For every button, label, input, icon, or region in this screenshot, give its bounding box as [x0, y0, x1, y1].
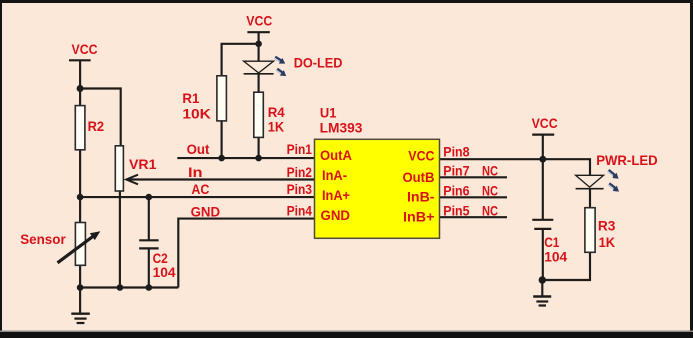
- diode PWR-LED triangle: [576, 175, 604, 187]
- sensor arrow: [58, 235, 96, 263]
- svg-text:Pin2: Pin2: [287, 164, 313, 180]
- svg-text:104: 104: [153, 264, 176, 280]
- wire VCC mid vertical to LED: [258, 32, 260, 61]
- svg-text:AC: AC: [191, 181, 209, 197]
- svg-text:DO-LED: DO-LED: [294, 55, 343, 71]
- wire R1 bottom to Out row: [221, 121, 223, 158]
- capacitor C2 top lead: [148, 197, 150, 240]
- wire node to R1 top: [222, 44, 259, 76]
- diode DO-LED cathode bar: [244, 73, 274, 75]
- wire VCC right vertical: [542, 135, 544, 160]
- svg-text:Pin7: Pin7: [443, 163, 469, 179]
- node dot Pin8/VCC/C1: [539, 156, 546, 163]
- node dot VCC-left/R2/VR1: [77, 85, 84, 92]
- wire Pin6 stub: [439, 196, 508, 198]
- wire LED to R4: [258, 74, 260, 92]
- svg-text:R2: R2: [88, 118, 105, 134]
- node dot AC/R2/sensor: [77, 194, 84, 201]
- svg-text:InA+: InA+: [322, 187, 350, 203]
- svg-text:Pin1: Pin1: [287, 141, 313, 157]
- svg-text:C1: C1: [544, 234, 559, 250]
- wire In row (wiper to Pin2): [128, 178, 315, 180]
- svg-text:Pin4: Pin4: [287, 203, 313, 219]
- capacitor C2 bottom lead: [148, 248, 150, 287]
- wire GND corner riser: [178, 219, 314, 288]
- svg-text:Pin6: Pin6: [443, 183, 469, 199]
- potentiometer VR1 body: [115, 146, 123, 191]
- wire Out row: [177, 157, 314, 159]
- border frame: [0, 0, 693, 3]
- svg-text:VCC: VCC: [532, 115, 558, 131]
- sensor body: [75, 223, 85, 266]
- wire R4 bottom to Out row: [258, 137, 260, 158]
- power symbol VCC right bar: [532, 134, 554, 136]
- resistor R2 body: [75, 106, 85, 150]
- node dot ground row / C2: [146, 284, 153, 291]
- wire Pin5 stub: [439, 216, 508, 218]
- node dot Out/R1: [218, 155, 225, 162]
- wire Pin7 stub: [439, 176, 508, 178]
- svg-text:10K: 10K: [182, 105, 211, 121]
- capacitor C1 plates: [532, 219, 553, 221]
- svg-text:InA-: InA-: [322, 167, 347, 183]
- svg-text:OutA: OutA: [320, 147, 352, 163]
- svg-text:In: In: [188, 164, 203, 180]
- wire VR1 bottom to ground row: [119, 191, 121, 288]
- svg-text:Pin3: Pin3: [287, 181, 313, 197]
- svg-text:InB-: InB-: [407, 188, 435, 204]
- svg-text:VR1: VR1: [129, 156, 157, 172]
- svg-text:VCC: VCC: [246, 12, 272, 28]
- svg-text:LM393: LM393: [320, 119, 363, 135]
- node dot ground row / sensor: [77, 284, 84, 291]
- svg-text:VCC: VCC: [72, 41, 98, 57]
- svg-text:PWR-LED: PWR-LED: [596, 152, 658, 168]
- svg-text:NC: NC: [482, 202, 498, 218]
- diode DO-LED triangle: [244, 61, 274, 73]
- diode PWR-LED cathode bar: [576, 188, 604, 190]
- svg-text:R1: R1: [182, 90, 199, 106]
- svg-text:1K: 1K: [268, 119, 285, 135]
- wire bottom ground row: [80, 286, 178, 288]
- wire PWR-LED to R3: [589, 189, 591, 208]
- svg-text:R3: R3: [598, 218, 616, 234]
- LED emission arrows DO-LED: [274, 56, 286, 76]
- capacitor C1 bottom lead: [542, 229, 544, 280]
- svg-text:Pin5: Pin5: [443, 202, 469, 218]
- svg-text:NC: NC: [482, 163, 498, 179]
- wire Pin8 row to VCC and PWR-LED: [439, 159, 591, 175]
- op-amp U1 LM393 body: [315, 139, 440, 238]
- node dot Out/R4: [255, 155, 262, 162]
- svg-text:InB+: InB+: [403, 209, 435, 225]
- LED emission arrows PWR-LED: [607, 169, 619, 192]
- resistor R1 body: [217, 76, 227, 121]
- svg-text:GND: GND: [191, 204, 221, 220]
- svg-text:Pin8: Pin8: [443, 143, 469, 159]
- node dot ground row / VR1: [117, 284, 124, 291]
- power symbol VCC middle bar: [247, 31, 269, 33]
- svg-text:Out: Out: [187, 141, 210, 157]
- svg-text:NC: NC: [482, 183, 498, 199]
- wire node VCC-left to VR1 top: [80, 89, 121, 146]
- power symbol VCC left bar: [69, 59, 91, 61]
- svg-text:Sensor: Sensor: [20, 231, 66, 247]
- wire VCC left vertical to R2: [79, 60, 81, 105]
- ground symbol right: [541, 280, 543, 297]
- resistor R3 body: [585, 208, 595, 253]
- wire R2 bottom to sensor top: [79, 150, 81, 223]
- svg-text:U1: U1: [320, 105, 337, 121]
- node dot VCC-mid: [255, 41, 262, 48]
- svg-text:VCC: VCC: [408, 147, 434, 163]
- svg-text:OutB: OutB: [403, 169, 435, 185]
- resistor R4 body: [254, 92, 263, 137]
- wire AC row: [80, 196, 314, 198]
- capacitor C2 plates: [139, 239, 158, 241]
- node dot AC/C2: [146, 194, 153, 201]
- node dot right ground: [539, 276, 546, 283]
- svg-text:GND: GND: [321, 207, 351, 223]
- wire sensor bottom lead: [79, 265, 81, 287]
- svg-text:104: 104: [544, 249, 567, 265]
- svg-text:1K: 1K: [599, 234, 616, 250]
- potentiometer VR1 wiper arrowhead: [126, 175, 138, 185]
- capacitor C1 top lead: [542, 159, 544, 220]
- wire R3 bottom corner to ground node: [542, 252, 590, 280]
- ground symbol left: [79, 288, 81, 314]
